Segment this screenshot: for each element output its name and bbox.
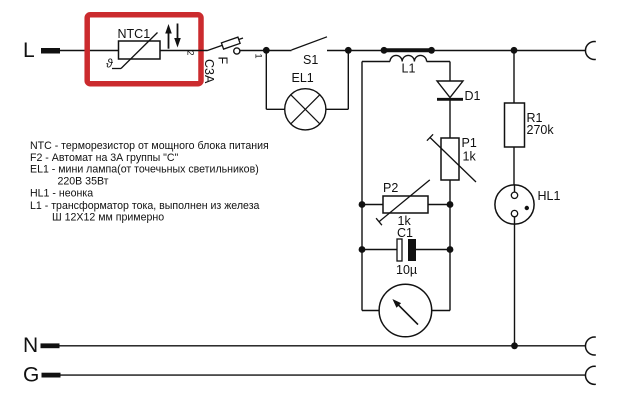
highlight box (red) (87, 15, 201, 84)
svg-text:220В 35Вт: 220В 35Вт (58, 175, 109, 187)
wire NTC to breaker (160, 50, 208, 52)
svg-text:L: L (23, 39, 35, 62)
svg-text:C1: C1 (397, 226, 413, 240)
svg-text:F2 - Автомат на 3А группы "С": F2 - Автомат на 3А группы "С" (30, 152, 179, 164)
svg-text:270k: 270k (527, 123, 555, 137)
lamp EL1 (266, 50, 348, 130)
legend text (30, 140, 269, 224)
neon lamp HL1 (495, 185, 561, 346)
svg-text:10µ: 10µ (396, 263, 417, 277)
arrow down (174, 24, 181, 48)
wire junction B to core (348, 50, 384, 52)
svg-text:ϑ: ϑ (106, 57, 113, 71)
circuit breaker F C3A (202, 37, 243, 84)
svg-text:D1: D1 (465, 89, 481, 103)
resistor R1 (505, 50, 555, 185)
wire core to R1 junction (432, 50, 515, 52)
junction N (511, 342, 518, 349)
transformer L1 (362, 47, 450, 76)
node L (23, 39, 35, 62)
svg-text:NTC1: NTC1 (118, 27, 151, 41)
junction C (511, 47, 518, 54)
svg-text:L1 - трансформатор тока, выпол: L1 - трансформатор тока, выполнен из жел… (30, 200, 260, 212)
svg-text:HL1 - неонка: HL1 - неонка (30, 188, 93, 200)
svg-text:HL1: HL1 (538, 189, 561, 203)
potentiometer P2 (359, 180, 454, 228)
svg-text:2: 2 (186, 51, 196, 56)
thermistor NTC1 (106, 27, 160, 71)
junction A (254, 47, 270, 59)
svg-text:NTC - терморезистор от мощного: NTC - терморезистор от мощного блока пит… (30, 140, 269, 152)
wire L stub (41, 48, 119, 54)
wire D1 to P1 (449, 99, 451, 138)
svg-text:N: N (23, 334, 38, 357)
wire P1 to meter right (449, 180, 451, 311)
terminal arc L (585, 42, 595, 60)
svg-text:F: F (216, 57, 230, 65)
svg-text:P1: P1 (462, 136, 477, 150)
potentiometer P1 (427, 134, 477, 182)
node N (23, 334, 586, 357)
node G (23, 364, 586, 387)
arrow up (165, 24, 172, 49)
capacitor C1 (359, 226, 454, 277)
meter M1 (379, 284, 450, 337)
wire secondary left (362, 62, 379, 311)
wire junction to switch (266, 50, 292, 52)
svg-text:C3A: C3A (202, 59, 216, 84)
terminal arc N (585, 337, 595, 355)
svg-text:EL1 - мини лампа(от точечьных: EL1 - мини лампа(от точечьных светильник… (30, 164, 259, 176)
wire junction C to terminal (514, 50, 586, 52)
svg-text:Ш 12Х12 мм примерно: Ш 12Х12 мм примерно (52, 211, 164, 223)
svg-text:L1: L1 (402, 62, 416, 76)
svg-text:1: 1 (254, 54, 264, 59)
svg-text:EL1: EL1 (292, 71, 314, 85)
wire breaker to junction (240, 50, 266, 52)
terminal arc G (585, 366, 595, 384)
diode D1 (437, 62, 481, 104)
pin 2 (186, 51, 196, 56)
junction B (345, 47, 352, 54)
switch S1 (292, 37, 349, 67)
svg-text:S1: S1 (303, 53, 318, 67)
svg-text:P2: P2 (383, 181, 398, 195)
svg-text:1k: 1k (463, 150, 477, 164)
svg-text:G: G (23, 364, 39, 387)
